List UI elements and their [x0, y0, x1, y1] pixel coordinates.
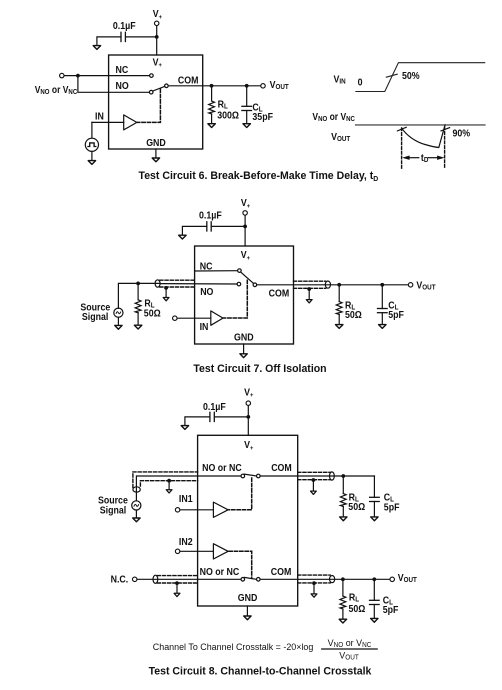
svg-text:GND: GND	[146, 137, 166, 148]
wire: N.C. terminal to bottom switch	[137, 578, 241, 580]
pin label NC (circuit 7)	[200, 261, 213, 272]
ground (decoupling cap, circuit 7)	[179, 235, 186, 239]
crosstalk formula numerator VNO or VNC	[328, 638, 372, 650]
node: shield ground tap right-bottom (circuit 8)	[312, 581, 316, 585]
coax shield right-bottom (circuit 8)	[298, 575, 335, 583]
wire: top CL to ground	[373, 502, 375, 518]
node: shield ground tap left-top (circuit 8)	[167, 479, 171, 483]
pin label NO or NC (bottom, circuit 8)	[200, 567, 240, 578]
svg-text:NO: NO	[116, 81, 129, 92]
crossing tick right (VOUT)	[441, 128, 450, 131]
dashed control line (IN2 buffer to bottom switch)	[229, 551, 252, 577]
terminal VOUT (circuit 8)	[390, 573, 417, 585]
pin label GND (circuit 8)	[238, 593, 258, 604]
dashed control line (switch to buffer, circuit 7)	[224, 280, 248, 318]
switch S2 arm (bottom, circuit 8)	[244, 577, 256, 579]
waveform label VIN	[334, 74, 346, 86]
pin label NC	[116, 65, 129, 76]
switch S1 pole COM (circuit 6)	[165, 84, 169, 88]
ground (bottom CL, circuit 8)	[371, 618, 378, 622]
pin label NO (circuit 7)	[200, 286, 213, 297]
node: shield ground tap right (circuit 7)	[307, 287, 311, 291]
pin label NO	[116, 81, 129, 92]
node: shield ground tap left-bottom (circuit 8)	[175, 581, 179, 585]
svg-text:50Ω: 50Ω	[345, 309, 362, 320]
waveform label 90%	[453, 128, 471, 139]
wire: AC source up into shield	[135, 476, 137, 501]
switch S arm NC-COM (circuit 7)	[241, 272, 254, 283]
coax shield left-bottom (circuit 8)	[153, 575, 198, 583]
wire: RL to ground	[211, 114, 213, 124]
wire: AC source up to signal node	[118, 283, 159, 308]
svg-text:COM: COM	[178, 75, 199, 86]
node: RL source tap (circuit 7)	[136, 282, 140, 286]
svg-text:GND: GND	[238, 593, 258, 604]
switch S1 arm NO-COM	[153, 86, 165, 91]
ground (decoupling cap, circuit 6)	[93, 46, 100, 50]
terminal IN1 stub	[175, 508, 180, 513]
switch S1 contact NC (circuit 6)	[150, 74, 154, 78]
ground (top CL, circuit 8)	[371, 517, 378, 521]
crosstalk formula denominator VOUT	[339, 650, 359, 662]
ground (pulse generator)	[88, 161, 95, 165]
capacitor CL 5pF (circuit 7)	[378, 300, 405, 320]
wire: output RL to ground	[338, 315, 340, 325]
resistor RL 50ohm (bottom, circuit 8)	[340, 592, 366, 614]
svg-text:0: 0	[358, 77, 363, 88]
wire: AC source to ground	[135, 510, 137, 518]
wire: CL to ground	[381, 313, 383, 325]
wire: IN1 terminal to buffer	[180, 509, 213, 511]
svg-text:5pF: 5pF	[383, 605, 399, 616]
coax shield right (circuit 7)	[294, 281, 331, 288]
power terminal V+ (circuit 6)	[153, 9, 163, 26]
ground (RL, circuit 6)	[208, 124, 215, 128]
pin label IN1	[179, 494, 193, 505]
coax shield right-top (circuit 8)	[298, 472, 335, 480]
wire: V+ node to decoupling capacitor	[212, 225, 246, 227]
ground (GND pin, circuit 8)	[244, 616, 251, 620]
buffer amplifier IN2 (circuit 8)	[213, 544, 228, 559]
capacitor CL 35pF (circuit 6)	[242, 102, 273, 122]
pin label V+ (inside box, circuit 7)	[241, 250, 251, 262]
ground (left-bottom shield, circuit 8)	[174, 593, 180, 596]
wire: IN pin to buffer	[92, 121, 124, 123]
wire: COM to VOUT terminal	[168, 85, 260, 87]
ground (source RL, circuit 7)	[134, 325, 141, 329]
node: CL tap (bottom, circuit 8)	[372, 577, 376, 581]
switch S1 contact (top, circuit 8)	[241, 474, 245, 478]
ground (output RL, circuit 7)	[336, 325, 343, 329]
switch S2 contact (bottom, circuit 8)	[241, 578, 245, 582]
crossing tick left (VOUT)	[397, 127, 406, 131]
wire: V+ node to decoupling capacitor	[126, 36, 157, 38]
capacitor 0.1uF (circuit 8 decoupling)	[203, 401, 226, 421]
node: RL tap (bottom output, circuit 8)	[341, 577, 345, 581]
wire: RL output tap down	[338, 285, 340, 302]
ground (bottom RL, circuit 8)	[339, 619, 346, 623]
wire: V+ node down to IC box	[156, 37, 158, 55]
svg-text:NC: NC	[200, 261, 213, 272]
svg-text:IN1: IN1	[179, 494, 193, 505]
AC source (circuit 7)	[114, 308, 123, 317]
wire: NO pin from shield entry	[160, 283, 237, 285]
wire: top RL to ground	[342, 507, 344, 518]
ground (AC source, circuit 8)	[133, 518, 140, 522]
dashed marker line left (tD)	[401, 128, 403, 168]
AC source (circuit 8)	[132, 501, 141, 510]
wire: decoupling capacitor to ground	[185, 417, 210, 426]
tD dimension arrow left	[402, 156, 419, 160]
wire: bottom RL to ground	[342, 609, 344, 619]
wire: left-bottom shield to ground	[176, 583, 178, 593]
pin label IN2	[179, 537, 193, 548]
wire: V+ node down to IC box	[244, 226, 246, 246]
switch S1 contact NO (circuit 6)	[149, 90, 153, 94]
tD dimension arrow right	[428, 156, 444, 160]
ground (right-top shield, circuit 8)	[311, 491, 317, 494]
wire: GND pin stub	[155, 149, 157, 158]
resistor RL 50ohm (top, circuit 8)	[340, 492, 365, 512]
svg-text:COM: COM	[271, 463, 292, 474]
coax shield left (circuit 7)	[155, 280, 195, 287]
ground (GND pin, circuit 6)	[152, 158, 159, 162]
switch S contact NO (circuit 7)	[237, 282, 241, 286]
svg-text:Channel To Channel Crosstalk =: Channel To Channel Crosstalk = -20×log	[153, 642, 314, 652]
wire: top channel input (shield to switch)	[137, 475, 241, 477]
resistor RL 50ohm (source side, circuit 7)	[135, 298, 161, 319]
wire: GND pin stub (circuit 7)	[243, 344, 245, 354]
terminal VOUT (circuit 6)	[261, 80, 289, 92]
wire: right shield to ground	[308, 289, 310, 300]
switch S pole COM (circuit 7)	[253, 283, 257, 287]
power terminal V+ (circuit 8)	[244, 387, 254, 405]
IC box U (circuit 8)	[198, 435, 298, 606]
svg-text:IN: IN	[95, 111, 104, 122]
svg-text:300Ω: 300Ω	[217, 110, 239, 121]
resistor RL 300ohm (circuit 6)	[209, 99, 240, 121]
waveform trace VOUT dip curve	[402, 125, 445, 147]
wire: top CL drop (circuit 8)	[373, 476, 375, 497]
ground (AC source, circuit 7)	[115, 325, 122, 329]
ground (top RL, circuit 8)	[340, 517, 347, 521]
svg-text:90%: 90%	[453, 128, 471, 139]
buffer amplifier A1 (circuit 6)	[124, 115, 137, 130]
svg-text:0.1µF: 0.1µF	[113, 21, 136, 32]
ground (right shield, circuit 7)	[306, 300, 312, 303]
coax shield left-top L-shaped (circuit 8)	[133, 472, 198, 492]
wire: right-top shield to ground	[312, 480, 314, 491]
wire: left shield to ground	[165, 288, 167, 298]
wire: junction down and right to NO pin	[78, 76, 149, 93]
pin label COM (top, circuit 8)	[271, 463, 292, 474]
waveform label 50%	[402, 71, 420, 82]
pin label IN	[95, 111, 104, 122]
capacitor 0.1uF (circuit 6 decoupling)	[113, 21, 136, 42]
svg-text:COM: COM	[269, 288, 290, 299]
dashed marker line right (tD)	[444, 127, 446, 168]
wire: V+ node to decoupling capacitor	[215, 416, 249, 418]
ground (left shield, circuit 7)	[163, 298, 169, 301]
wire: V+ terminal to V+ node	[156, 26, 158, 37]
switch S contact NC (circuit 7)	[238, 269, 242, 273]
svg-text:COM: COM	[271, 567, 292, 578]
buffer amplifier IN1 (circuit 8)	[213, 502, 228, 517]
wire: V+ terminal to V+ node	[247, 406, 249, 417]
svg-text:NC: NC	[116, 65, 129, 76]
pin label NO or NC (top, circuit 8)	[202, 463, 242, 474]
terminal IN stub (circuit 7)	[173, 316, 178, 321]
pin label GND (circuit 7)	[234, 332, 254, 343]
svg-text:50Ω: 50Ω	[349, 604, 366, 615]
wire: top COM to output (circuit 8)	[260, 475, 374, 477]
label Source Signal (circuit 7)	[80, 302, 110, 322]
node: V+ junction (circuit 6)	[155, 35, 159, 39]
wire: right-bottom shield to ground	[313, 583, 315, 594]
node: shield ground tap right-top (circuit 8)	[312, 478, 316, 482]
wire: terminal to NC pin	[64, 75, 149, 77]
IC box U (circuit 7)	[195, 246, 294, 344]
wire: IN2 terminal to buffer	[180, 550, 213, 552]
crosstalk formula fraction bar	[322, 648, 378, 650]
node: CL tap (circuit 7)	[380, 283, 384, 287]
wire: pulse generator to ground	[91, 152, 93, 162]
wire: source RL to ground	[137, 313, 139, 326]
svg-text:50Ω: 50Ω	[348, 502, 365, 513]
node: RL output tap (circuit 7)	[337, 283, 341, 287]
wire: RL tap down	[211, 86, 213, 101]
svg-text:NO or NC: NO or NC	[202, 463, 242, 474]
svg-text:5pF: 5pF	[384, 502, 400, 513]
wire: IN terminal to buffer	[177, 317, 211, 319]
wire: bottom COM to VOUT (circuit 8)	[260, 578, 390, 580]
svg-text:NO: NO	[200, 286, 213, 297]
waveform label 0	[358, 77, 363, 88]
power terminal V+ (circuit 7)	[241, 198, 251, 215]
dashed control line (switch to buffer, circuit 6)	[138, 89, 161, 122]
wire: CL to ground	[246, 111, 248, 124]
caption: Test Circuit 7	[193, 363, 326, 375]
svg-text:Source: Source	[98, 495, 128, 506]
wire: bottom RL tap down	[342, 579, 344, 596]
ground (decoupling cap, circuit 8)	[181, 426, 188, 430]
buffer amplifier A (circuit 7)	[211, 311, 223, 325]
svg-text:GND: GND	[234, 332, 254, 343]
waveform trace VNO/VNC (gray)	[356, 124, 485, 126]
wire: NC pin stub	[195, 270, 238, 272]
wire: decoupling capacitor to ground	[97, 37, 121, 46]
waveform label VNO or VNC	[312, 111, 355, 123]
wire: V+ terminal to V+ node	[244, 216, 246, 227]
wire: GND pin stub (circuit 8)	[246, 606, 248, 616]
svg-text:Test Circuit 7. Off Isolation: Test Circuit 7. Off Isolation	[193, 363, 326, 375]
svg-text:50%: 50%	[402, 71, 420, 82]
pin label GND	[146, 137, 166, 148]
ground (CL, circuit 7)	[379, 325, 386, 329]
wire: V+ node down to IC box	[247, 417, 249, 435]
switch S1 arm (top, circuit 8)	[244, 474, 256, 476]
svg-text:35pF: 35pF	[252, 112, 273, 123]
capacitor 0.1uF (circuit 7 decoupling)	[199, 210, 222, 231]
waveform label VOUT	[331, 131, 350, 143]
wire: left-top shield to ground	[168, 481, 170, 490]
wire: CL tap down	[381, 285, 383, 309]
switch S1 pole (top, circuit 8)	[257, 474, 261, 478]
svg-text:5pF: 5pF	[388, 310, 404, 321]
ground (left-top shield, circuit 8)	[166, 490, 172, 493]
resistor RL 50ohm (output side, circuit 7)	[336, 300, 362, 320]
svg-text:Signal: Signal	[82, 312, 108, 323]
label tD	[421, 153, 429, 165]
ground (CL, circuit 6)	[243, 124, 250, 128]
svg-text:0.1µF: 0.1µF	[199, 210, 222, 221]
50% tick mark on VIN ramp	[386, 74, 397, 77]
node: shield ground tap left (circuit 7)	[164, 286, 168, 290]
terminal VOUT (circuit 7)	[408, 280, 435, 292]
pin label V+ (inside box, circuit 8)	[244, 440, 254, 452]
svg-text:Signal: Signal	[100, 505, 126, 516]
pin label IN (circuit 7)	[200, 322, 209, 333]
terminal IN2 stub	[175, 549, 180, 554]
wire: AC source to ground	[117, 317, 119, 325]
svg-text:Test Circuit 6. Break-Before-M: Test Circuit 6. Break-Before-Make Time D…	[139, 170, 379, 183]
caption: Test Circuit 6	[139, 170, 379, 183]
node: RL tap (top output, circuit 8)	[341, 474, 345, 478]
svg-text:IN2: IN2	[179, 537, 193, 548]
dashed control line (top switch to IN1 buffer)	[229, 478, 252, 510]
wire: COM pole to output (circuit 7)	[257, 284, 408, 286]
caption: Test Circuit 8	[149, 665, 373, 677]
wire: RL source tap down	[137, 283, 139, 299]
wire: IN down to pulse generator	[91, 122, 93, 138]
capacitor CL 5pF (bottom, circuit 8)	[370, 595, 399, 615]
svg-text:IN: IN	[200, 322, 209, 333]
label Source Signal (circuit 8)	[98, 495, 128, 516]
IC box U (circuit 6)	[109, 55, 203, 149]
waveform trace VIN	[356, 63, 485, 92]
svg-text:50Ω: 50Ω	[144, 308, 161, 319]
wire: top RL tap down	[342, 476, 344, 494]
svg-text:NO or NC: NO or NC	[200, 567, 240, 578]
wire: decoupling capacitor to ground	[182, 226, 206, 235]
node: RL tap (circuit 6)	[210, 84, 214, 88]
svg-text:N.C.: N.C.	[111, 574, 129, 585]
node: V+ junction (circuit 8)	[246, 415, 250, 419]
node: CL tap (circuit 6)	[245, 84, 249, 88]
pulse generator source (circuit 6)	[85, 138, 98, 151]
pin label COM (circuit 7)	[269, 288, 290, 299]
ground (right-bottom shield, circuit 8)	[311, 594, 317, 597]
node: V+ junction (circuit 7)	[243, 225, 247, 229]
pin label V+ (inside box top)	[153, 57, 163, 69]
terminal VNO or VNC (circuit 6)	[35, 73, 78, 96]
svg-text:Test Circuit 8. Channel-to-Cha: Test Circuit 8. Channel-to-Channel Cross…	[149, 665, 373, 677]
node: junction on VNO/VNC wire	[76, 74, 80, 78]
svg-text:0.1µF: 0.1µF	[203, 401, 226, 412]
wire: bottom CL tap down	[373, 579, 375, 600]
pin label COM	[178, 75, 199, 86]
crosstalk formula text	[153, 642, 314, 652]
pin label COM (bottom, circuit 8)	[271, 567, 292, 578]
ground (GND pin, circuit 7)	[240, 354, 247, 358]
switch S2 pole (bottom, circuit 8)	[257, 578, 261, 582]
wire: CL tap down	[246, 86, 248, 107]
wire: bottom CL to ground	[373, 605, 375, 619]
terminal N.C. (circuit 8)	[111, 574, 137, 585]
capacitor CL 5pF (top, circuit 8)	[370, 492, 400, 512]
